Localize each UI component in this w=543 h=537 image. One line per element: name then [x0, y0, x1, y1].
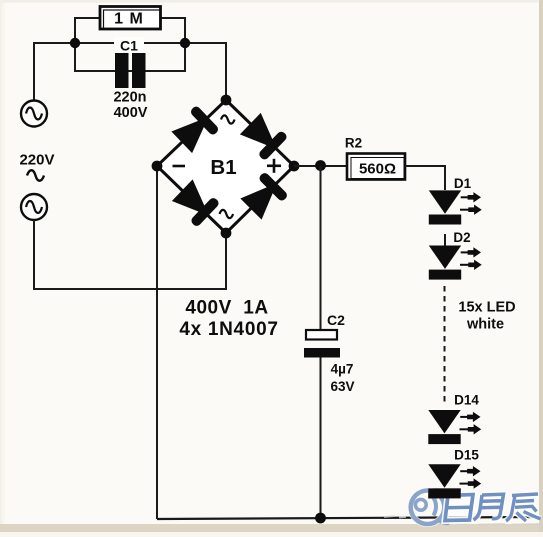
resistor R1 1M box	[100, 7, 161, 30]
svg-text:D1: D1	[454, 176, 472, 191]
node junction C2 bottom rail	[315, 513, 326, 524]
wire D15 to rail	[444, 497, 446, 518]
svg-text:400V 1A: 400V 1A	[185, 298, 268, 319]
svg-text:400V: 400V	[114, 105, 148, 121]
mains tilde symbol	[27, 170, 44, 181]
svg-text:220n: 220n	[113, 90, 146, 106]
LED D1	[429, 190, 482, 224]
LED D15	[428, 464, 481, 498]
wire plus rail to R2	[294, 165, 347, 167]
capacitor C1	[115, 53, 146, 88]
label C1	[114, 37, 144, 54]
svg-text:D14: D14	[454, 393, 479, 408]
capacitor C2 plate top	[306, 330, 337, 340]
diode bottom-left of B1	[170, 178, 220, 228]
wire 1M loop top	[75, 18, 185, 72]
wire C2 vertical top	[320, 166, 322, 330]
svg-text:15x LED: 15x LED	[458, 300, 515, 316]
resistor R2 box	[347, 154, 405, 180]
svg-text:C1: C1	[120, 38, 138, 54]
wire D1 to D2	[444, 234, 446, 246]
svg-text:63V: 63V	[330, 379, 354, 394]
page edge left faint line	[0, 0, 2, 532]
watermark logo circle	[411, 491, 449, 525]
capacitor C2 plate bottom	[304, 348, 340, 358]
AC source G2	[21, 194, 47, 220]
B1 AC tilde top	[221, 115, 235, 123]
svg-text:white: white	[466, 317, 504, 333]
LED D14	[428, 410, 481, 444]
wire minus rail left vertical	[156, 166, 158, 519]
diode top-left of B1	[170, 105, 220, 155]
node B1 left vertex	[152, 161, 163, 172]
watermark char ri	[445, 495, 473, 521]
wire C2 vertical bottom	[320, 357, 322, 518]
wire dashed LED chain	[444, 286, 446, 404]
svg-text:B1: B1	[210, 156, 236, 179]
label plus terminal	[267, 159, 281, 173]
node junction right top	[180, 38, 190, 48]
B1 AC tilde bottom	[220, 210, 234, 218]
diode bottom-right of B1	[239, 171, 289, 221]
svg-text:220V: 220V	[19, 152, 54, 169]
wire bottom rail	[157, 517, 541, 519]
svg-text:R2: R2	[345, 136, 362, 151]
wire top rail	[34, 43, 226, 100]
node B1 top vertex	[221, 95, 232, 106]
node junction left top	[70, 38, 80, 48]
wire AC2 to bottom row	[34, 220, 226, 289]
svg-text:D2: D2	[453, 230, 470, 245]
page edge right strip	[539, 0, 543, 532]
watermark faint remnant dashes	[384, 516, 540, 525]
svg-text:4µ7: 4µ7	[331, 362, 354, 377]
wire R2 to LED chain	[405, 166, 445, 190]
node junction plus/C2	[315, 160, 326, 171]
bridge rectifier B1 outline	[157, 100, 294, 233]
wire C1 row	[75, 70, 185, 72]
watermark char chen	[506, 494, 541, 521]
watermark char yue	[474, 494, 504, 520]
svg-text:560Ω: 560Ω	[359, 161, 396, 178]
label minus terminal	[173, 165, 186, 168]
svg-text:1 M: 1 M	[114, 11, 144, 28]
svg-text:D15: D15	[454, 448, 479, 463]
diode top-right of B1	[238, 111, 288, 161]
LED D15 cathode bar repaint	[428, 488, 460, 498]
page edge top faint line	[0, 0, 543, 3]
page edge bottom strip	[0, 524, 543, 532]
node B1 bottom vertex	[221, 228, 232, 239]
LED D2	[429, 246, 482, 280]
svg-text:4x 1N4007: 4x 1N4007	[179, 319, 278, 340]
svg-text:C2: C2	[327, 312, 345, 328]
node B1 right vertex	[289, 161, 300, 172]
AC source G1	[21, 101, 47, 127]
